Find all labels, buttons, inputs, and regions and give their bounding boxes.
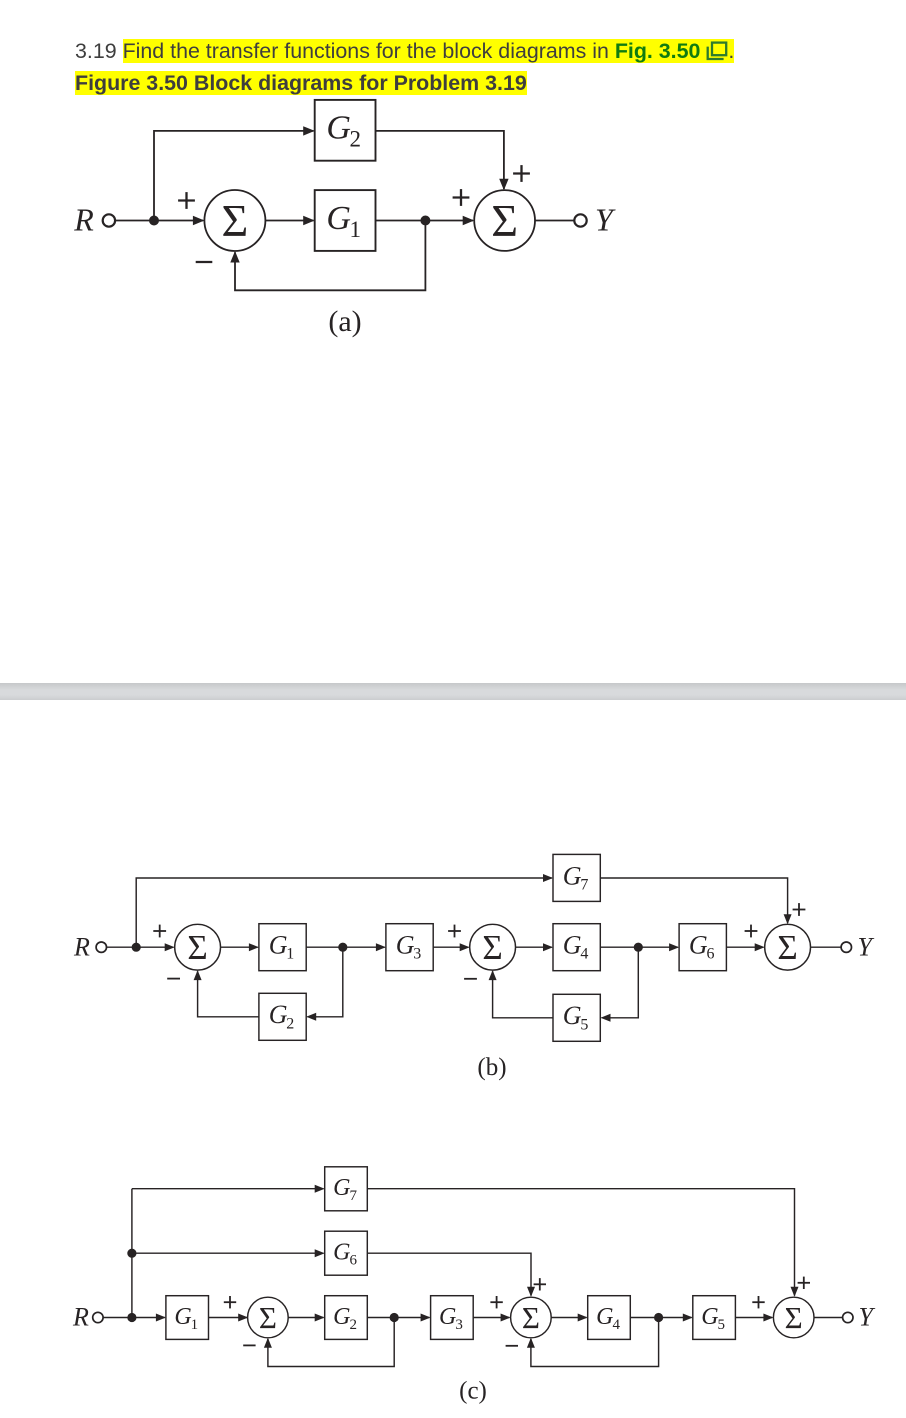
block G5 [693,1296,736,1340]
svg-text:Σ: Σ [522,1300,540,1335]
wire G2 to block G3 [367,1317,429,1319]
summing junction U5 [765,924,811,970]
svg-text:2: 2 [350,127,362,152]
minus sign at U3 bottom input [167,978,180,980]
wire R terminal to node F [103,1317,132,1319]
svg-text:G: G [701,1304,718,1330]
svg-text:(a): (a) [328,305,361,338]
wire U4 to block G4 [516,946,552,948]
block G6 [325,1231,368,1275]
wire to block G7 [132,1188,324,1190]
summing junction U4 [470,924,516,970]
svg-text:4: 4 [612,1317,620,1333]
wire U1 to block G1 [265,220,313,222]
node A junction dot [149,216,159,226]
wire G6 to summing junction U5 [726,946,763,948]
riser wire node F up to G7 level [131,1189,133,1318]
wire G6 to summing junction U7 top [367,1253,531,1295]
wire U5 to Y terminal [811,946,842,948]
summing junction U6 [248,1297,289,1338]
block G5 [553,994,600,1041]
plus sign at U2 left input [453,189,470,206]
summing junction U2 [474,190,535,251]
node B junction dot [420,216,430,226]
summing junction U8 [773,1297,814,1338]
minus sign at U4 bottom input [464,978,477,980]
svg-text:2: 2 [286,1015,294,1032]
wire U7 to block G4 [551,1317,586,1319]
svg-text:6: 6 [707,946,715,963]
svg-text:G: G [174,1304,191,1330]
svg-text:Σ: Σ [259,1300,277,1335]
svg-text:G: G [269,1000,288,1029]
wire G3 to summing junction U7 [473,1317,509,1319]
node D junction dot [338,943,347,952]
svg-text:2: 2 [349,1317,357,1333]
minus sign at U7 bottom input [506,1345,518,1347]
minus sign at U6 bottom input [243,1344,255,1346]
svg-text:1: 1 [286,946,294,963]
feedback wire node I to U7 bottom [531,1318,659,1367]
block G4 [588,1296,631,1340]
wire U8 to Y terminal [814,1317,843,1319]
feedback wire node B to U1 bottom [235,221,425,291]
node F junction dot [127,1313,136,1322]
feedback wire G2 to U3 bottom [198,971,259,1017]
svg-text:7: 7 [349,1188,357,1204]
wire node F to block G1 [132,1317,165,1319]
wire node C to summing junction U3 [136,946,173,948]
minus sign at U1 bottom input [196,261,213,263]
wire G3 to summing junction U4 [433,946,468,948]
node C junction dot [132,943,141,952]
summing junction U3 [175,924,221,970]
block G2 [259,993,306,1040]
svg-text:Y: Y [858,933,875,962]
feedback wire node E to block G5 [602,947,639,1018]
wire G1 to summing junction U6 [209,1317,248,1319]
svg-text:Σ: Σ [187,928,207,967]
node R input terminal [73,933,106,962]
svg-text:G: G [596,1304,613,1330]
svg-text:G: G [326,200,351,237]
svg-text:Σ: Σ [222,195,249,246]
plus sign at U6 left input [224,1296,236,1308]
svg-text:G: G [689,931,708,960]
svg-text:7: 7 [580,876,588,893]
plus sign at U1 left input [178,192,195,209]
svg-text:Σ: Σ [777,928,797,967]
wire G5 to summing junction U8 [735,1317,772,1319]
svg-text:G: G [563,1001,582,1030]
svg-text:R: R [72,1303,89,1332]
node R input terminal [73,202,115,238]
plus sign at U8 left input [752,1296,764,1308]
wire G4 to block G6 [600,946,678,948]
block G7 [553,854,600,901]
wire node A up to block G2 [154,131,314,221]
node Y output terminal [843,1303,876,1332]
svg-text:3: 3 [455,1317,463,1333]
wire G4 to block G5 [630,1317,691,1319]
wire U2 to Y terminal [535,220,575,222]
wire node C up to block G7 [136,878,552,947]
svg-text:3: 3 [413,946,421,963]
wire U6 to block G2 [288,1317,323,1319]
svg-text:1: 1 [350,217,362,242]
block G1 [315,190,376,251]
block G1 [166,1296,209,1340]
wire node A to summing junction U1 [154,220,203,222]
block G2 [325,1296,368,1340]
svg-text:G: G [326,110,351,147]
plus sign at U3 left input [153,925,166,938]
svg-text:R: R [73,933,90,962]
block G7 [325,1167,368,1211]
node G at G6 level junction dot [127,1249,136,1258]
node I junction dot [654,1313,663,1322]
svg-text:6: 6 [349,1252,357,1268]
svg-text:Σ: Σ [785,1300,803,1335]
node E junction dot [634,943,643,952]
svg-text:1: 1 [191,1317,199,1333]
svg-text:4: 4 [580,946,588,963]
svg-text:G: G [396,931,415,960]
plus sign at U5 top input [793,903,806,916]
plus sign at U7 left input [490,1296,502,1308]
svg-text:Σ: Σ [491,195,518,246]
node Y output terminal [841,933,874,962]
svg-text:Y: Y [859,1303,876,1332]
plus sign at U8 top input [798,1277,810,1289]
gray separator band [0,683,906,700]
node H junction dot [390,1313,399,1322]
plus sign at U2 top input [513,165,530,182]
summing junction U1 [204,190,265,251]
block G3 [386,924,433,971]
svg-text:(b): (b) [477,1054,506,1081]
svg-text:G: G [333,1239,350,1265]
svg-text:G: G [439,1304,456,1330]
wire G2 to summing junction U2 top [376,131,504,189]
svg-text:5: 5 [580,1016,588,1033]
wire G1 to block G3 [306,946,385,948]
wire G1 to summing junction U2 [376,220,474,222]
node R input terminal [72,1303,103,1332]
block G6 [679,924,726,971]
wire U3 to block G1 [221,946,258,948]
summing junction U7 [511,1297,552,1338]
svg-text:G: G [333,1175,350,1201]
wire node G to block G6 [132,1252,324,1254]
block G1 [259,924,306,971]
block G4 [553,924,600,971]
wire R terminal to node C [107,946,137,948]
block G3 [431,1296,474,1340]
plus sign at U5 left input [745,925,758,938]
svg-text:G: G [563,861,582,890]
feedback wire node D to block G2 [307,947,342,1017]
figure caption line [75,71,527,95]
svg-text:Y: Y [595,202,616,238]
svg-text:Σ: Σ [482,928,502,967]
plus sign at U4 left input [448,925,461,938]
node Y output terminal [574,202,616,238]
svg-text:R: R [73,202,94,238]
plus sign at U7 top input [534,1278,546,1290]
feedback wire node H to U6 bottom [268,1318,394,1367]
wire G7 to summing junction U8 top [367,1189,794,1296]
svg-text:G: G [563,931,582,960]
svg-text:G: G [269,931,288,960]
wire R terminal to node A [115,220,154,222]
problem statement line [75,37,734,64]
feedback wire G5 to U4 bottom [493,971,553,1018]
wire G7 to summing junction U5 top [600,878,787,923]
svg-text:(c): (c) [459,1378,487,1405]
block G2 [315,100,376,161]
svg-text:5: 5 [718,1317,726,1333]
svg-text:G: G [333,1304,350,1330]
